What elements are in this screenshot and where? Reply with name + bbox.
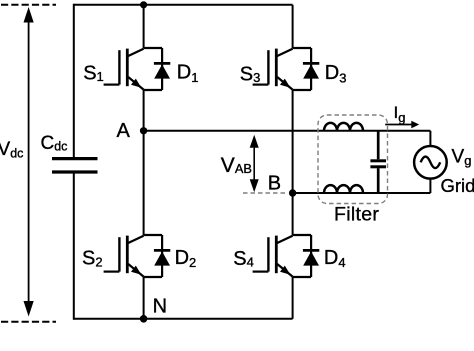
wire grid top lead	[429, 131, 431, 146]
arrow Vdc dimension	[24, 7, 34, 317]
wire leg1 middle (A region)	[143, 90, 145, 235]
wire leg2 bottom	[292, 277, 294, 319]
transistor S4 with diode D4	[253, 235, 320, 277]
wire leg1 bottom	[143, 277, 145, 319]
wire top rail	[74, 4, 293, 6]
svg-text:A: A	[117, 120, 131, 142]
dashed extension top left	[1, 4, 56, 6]
svg-text:Filter: Filter	[334, 204, 379, 226]
capacitor filter	[370, 131, 386, 193]
svg-text:Grid: Grid	[441, 175, 474, 196]
capacitor Cdc	[52, 159, 98, 172]
svg-text:N: N	[153, 295, 167, 317]
sine wave	[421, 157, 441, 169]
source Vg grid	[414, 146, 447, 179]
filter dashed box	[318, 115, 388, 204]
arrow VAB dimension	[250, 135, 259, 192]
inductor filter bottom	[324, 185, 363, 193]
dashed extension bottom left	[1, 321, 56, 323]
transistor S2 with diode D2	[104, 235, 171, 277]
wire bottom rail	[74, 318, 293, 320]
wire node A output line	[144, 130, 431, 132]
wire leg2 collector S3	[292, 5, 294, 48]
node top junction	[140, 1, 147, 8]
wire left rail upper	[73, 4, 75, 157]
svg-text:B: B	[268, 173, 281, 195]
arrow Ig	[385, 121, 419, 129]
transistor S3 with diode D3	[253, 48, 320, 90]
node B	[289, 189, 296, 196]
transistor S1 with diode D1	[104, 48, 171, 90]
node N	[140, 315, 148, 323]
wire left rail lower	[73, 173, 75, 320]
wire leg2 middle	[292, 90, 294, 235]
wire node B output line	[293, 192, 431, 194]
wire leg1 collector S1	[143, 5, 145, 48]
dashed line at node B	[243, 192, 288, 194]
wire grid bottom lead	[429, 179, 431, 193]
inductor filter top	[324, 123, 363, 131]
node A	[140, 127, 147, 134]
